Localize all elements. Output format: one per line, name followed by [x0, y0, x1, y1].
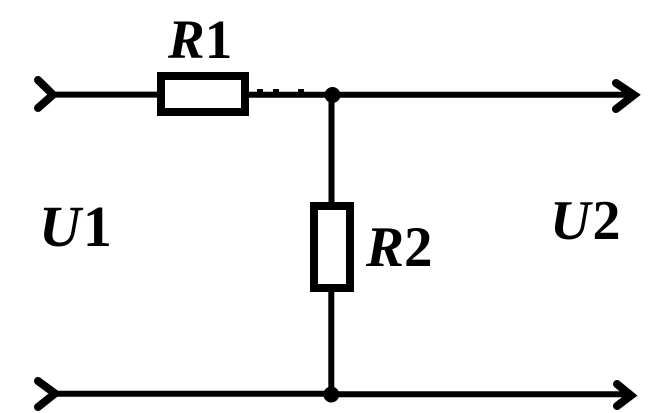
output arrow top-right: [616, 83, 634, 109]
wire: node A down to R2: [329, 95, 335, 206]
resistor R1 body: [161, 76, 245, 112]
wire: bottom rail left of node B: [55, 391, 331, 397]
svg-text:U1: U1: [39, 194, 112, 259]
wire: bottom rail right of node B: [331, 391, 628, 397]
svg-text:R1: R1: [167, 9, 232, 70]
scan tick marks on wire near R1: [257, 89, 304, 92]
wire: R1 to node A: [246, 92, 332, 98]
node A junction dot: [325, 87, 341, 103]
wire: top-left input to R1: [53, 92, 161, 98]
wire: R2 down to node B: [328, 288, 334, 394]
svg-text:R2: R2: [365, 216, 433, 279]
node B junction dot: [323, 387, 339, 403]
input arrow top-left: [38, 80, 53, 108]
output arrow bottom-right: [617, 384, 631, 406]
wire: node A to top-right output: [332, 92, 627, 98]
input arrow bottom-left: [38, 381, 55, 407]
svg-text:U2: U2: [550, 190, 620, 252]
resistor R2 body: [314, 206, 350, 288]
